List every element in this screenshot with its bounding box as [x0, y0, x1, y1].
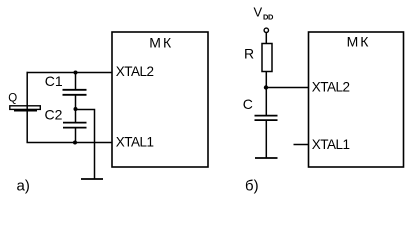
svg-text:Q: Q: [8, 93, 17, 105]
svg-text:DD: DD: [263, 13, 274, 22]
svg-text:XTAL1: XTAL1: [116, 134, 154, 149]
wire: capacitor to ground (circuit b): [265, 120, 267, 158]
IC U1: microcontroller МК box (circuit a): [112, 32, 208, 167]
wire: node to XTAL2 pin (circuit b): [266, 87, 309, 89]
wire: resistor to node: [265, 72, 267, 88]
wire: C2 bottom lead: [75, 128, 77, 143]
wire: node to capacitor C: [265, 88, 267, 116]
svg-text:МК: МК: [347, 33, 371, 49]
wire: C1 top lead: [75, 72, 77, 90]
ground (circuit a): [81, 178, 103, 180]
wire: left vertical through crystal (circuit a): [26, 72, 28, 143]
junction: C1/C2 midpoint: [74, 107, 78, 111]
resistor R: [262, 44, 272, 72]
svg-text:а): а): [17, 178, 30, 195]
svg-text:XTAL2: XTAL2: [312, 80, 350, 95]
IC U2: microcontroller МК box (circuit b): [309, 32, 404, 167]
junction: R/C node: [264, 85, 268, 89]
junction: top rail / C1: [74, 71, 78, 75]
node VDD label: [254, 5, 275, 22]
wire: bottom rail XTAL1 (circuit a): [27, 142, 113, 144]
junction: C2 / bottom rail: [73, 141, 77, 145]
svg-text:XTAL1: XTAL1: [312, 137, 350, 152]
svg-text:C: C: [243, 96, 253, 112]
wire: VDD terminal to resistor: [265, 33, 267, 44]
svg-text:XTAL2: XTAL2: [116, 64, 154, 79]
capacitor C: [255, 116, 278, 121]
svg-text:МК: МК: [149, 34, 173, 50]
capacitor C2: [63, 123, 87, 128]
ground (circuit b): [255, 157, 278, 159]
wire: midpoint to ground (circuit a): [76, 110, 95, 180]
svg-text:б): б): [245, 178, 259, 195]
capacitor C1: [63, 90, 87, 95]
crystal Q: [10, 106, 41, 112]
wire: C1-C2 middle lead: [75, 95, 77, 123]
wire: top rail XTAL2 (circuit a): [27, 72, 113, 74]
wire: XTAL1 stub (circuit b): [294, 144, 309, 146]
svg-text:C2: C2: [45, 106, 63, 122]
svg-text:R: R: [244, 45, 254, 61]
svg-text:C1: C1: [45, 73, 63, 89]
node VDD terminal: [264, 28, 268, 32]
svg-text:V: V: [254, 5, 263, 20]
